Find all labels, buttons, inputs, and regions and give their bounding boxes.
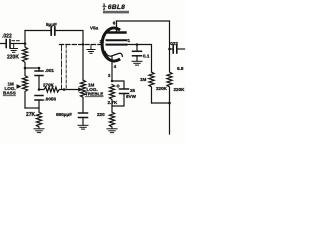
svg-text:6.8: 6.8 [177, 66, 184, 71]
svg-text:4: 4 [114, 64, 117, 69]
wire bass top to cap chain [25, 67, 39, 69]
node cap chain top [38, 67, 41, 70]
resistor 270K [39, 87, 64, 92]
wire wiper to treble arrow [64, 89, 79, 91]
bass wiper arrow [17, 84, 22, 88]
ground on shield [87, 45, 95, 54]
title half 6BL8 [103, 2, 125, 11]
resistor 6.8K right [167, 49, 172, 134]
cathode lead down [111, 56, 113, 81]
ground at input tap [10, 44, 17, 53]
resistor 2.7K cathode [109, 85, 114, 113]
tube grid row 1 [107, 39, 127, 41]
shield dashed horizontal grid lead [60, 44, 105, 46]
ground below 220 [107, 127, 117, 133]
tube V5a envelope [102, 28, 119, 61]
wire plate output right [126, 45, 152, 73]
svg-text:.001: .001 [45, 68, 54, 73]
wire from C1 to input node [11, 43, 25, 45]
node treble wiper [63, 88, 66, 91]
resistor 220 cathode bottom [109, 112, 114, 127]
capacitor 0.1 [136, 45, 138, 51]
svg-text:.0056: .0056 [45, 97, 57, 102]
ground below 0.1 [132, 61, 142, 65]
svg-text:220K: 220K [174, 87, 186, 92]
tube plate [109, 21, 126, 33]
node right bottom [168, 102, 171, 105]
capacitor 680uuF [79, 113, 88, 118]
capacitor 5uuF [51, 27, 55, 35]
wire input node up to top rail [24, 31, 26, 44]
node grid crossing [82, 43, 84, 45]
ground below 680uuF [78, 125, 88, 129]
treble wiper arrow [78, 87, 82, 91]
svg-text:220K: 220K [156, 86, 168, 91]
svg-text:1: 1 [128, 38, 131, 43]
wire bottom right join [152, 102, 170, 104]
capacitor .022 output [170, 48, 173, 50]
svg-text:5μμF: 5μμF [46, 22, 57, 27]
wire cathode to bypass cap [112, 81, 124, 88]
wire top rail right [117, 21, 170, 49]
resistor 27K [36, 112, 41, 127]
svg-text:6BL8: 6BL8 [108, 4, 125, 11]
svg-text:1M: 1M [140, 77, 147, 82]
wire input stub [0, 43, 5, 45]
label 1M LOG. TREBLE [85, 83, 103, 97]
node cathode junction [111, 80, 113, 82]
node input junction [24, 42, 27, 45]
tube cathode [105, 52, 122, 57]
svg-text:.022: .022 [169, 41, 178, 46]
potentiometer bass 1M LOG [22, 68, 27, 108]
switch contact ticks [12, 40, 19, 42]
svg-text:270K: 270K [43, 83, 55, 88]
svg-text:3: 3 [108, 73, 111, 78]
node output tap [168, 48, 171, 51]
label 25 6VW [126, 88, 137, 99]
wire 5uuF to corner and down to treble top [56, 31, 83, 81]
potentiometer treble 1M LOG [80, 80, 85, 112]
shield dashed vertical left [61, 45, 63, 89]
shield dashed vertical right [65, 45, 67, 89]
capacitor 25uF 6VW electrolytic [120, 89, 129, 94]
svg-text:.022: .022 [2, 34, 12, 40]
node 0.1 tap [136, 43, 139, 46]
resistor R1 220K [22, 44, 27, 69]
svg-text:V5a: V5a [90, 26, 99, 31]
capacitor .0056 [35, 96, 43, 101]
wire bass bottom corner [25, 107, 39, 109]
plus polarity mark [117, 85, 120, 88]
svg-text:680μμF: 680μμF [56, 112, 72, 117]
svg-text:220: 220 [97, 112, 105, 117]
svg-text:220K: 220K [7, 55, 19, 61]
svg-text:27K: 27K [26, 112, 36, 118]
svg-text:2.7K: 2.7K [108, 100, 118, 105]
capacitor .001 [35, 71, 43, 76]
svg-text:25: 25 [130, 88, 136, 93]
node bass top [24, 67, 27, 70]
ground below 27K [34, 127, 44, 133]
label 1M LOG. BASS [3, 82, 16, 96]
capacitor C1 .022 input [6, 40, 10, 48]
svg-text:BASS: BASS [3, 91, 16, 96]
title underline smear [103, 11, 129, 14]
svg-text:0.1: 0.1 [143, 54, 150, 59]
wire top rail to 5uuF [25, 30, 50, 32]
node 270K left [38, 88, 41, 91]
resistor 1M [149, 72, 154, 103]
svg-text:6VW: 6VW [126, 94, 137, 99]
tube grid row 2 [107, 44, 127, 46]
svg-text:2: 2 [100, 39, 103, 44]
svg-text:TREBLE: TREBLE [85, 92, 103, 97]
svg-text:6: 6 [113, 21, 116, 26]
